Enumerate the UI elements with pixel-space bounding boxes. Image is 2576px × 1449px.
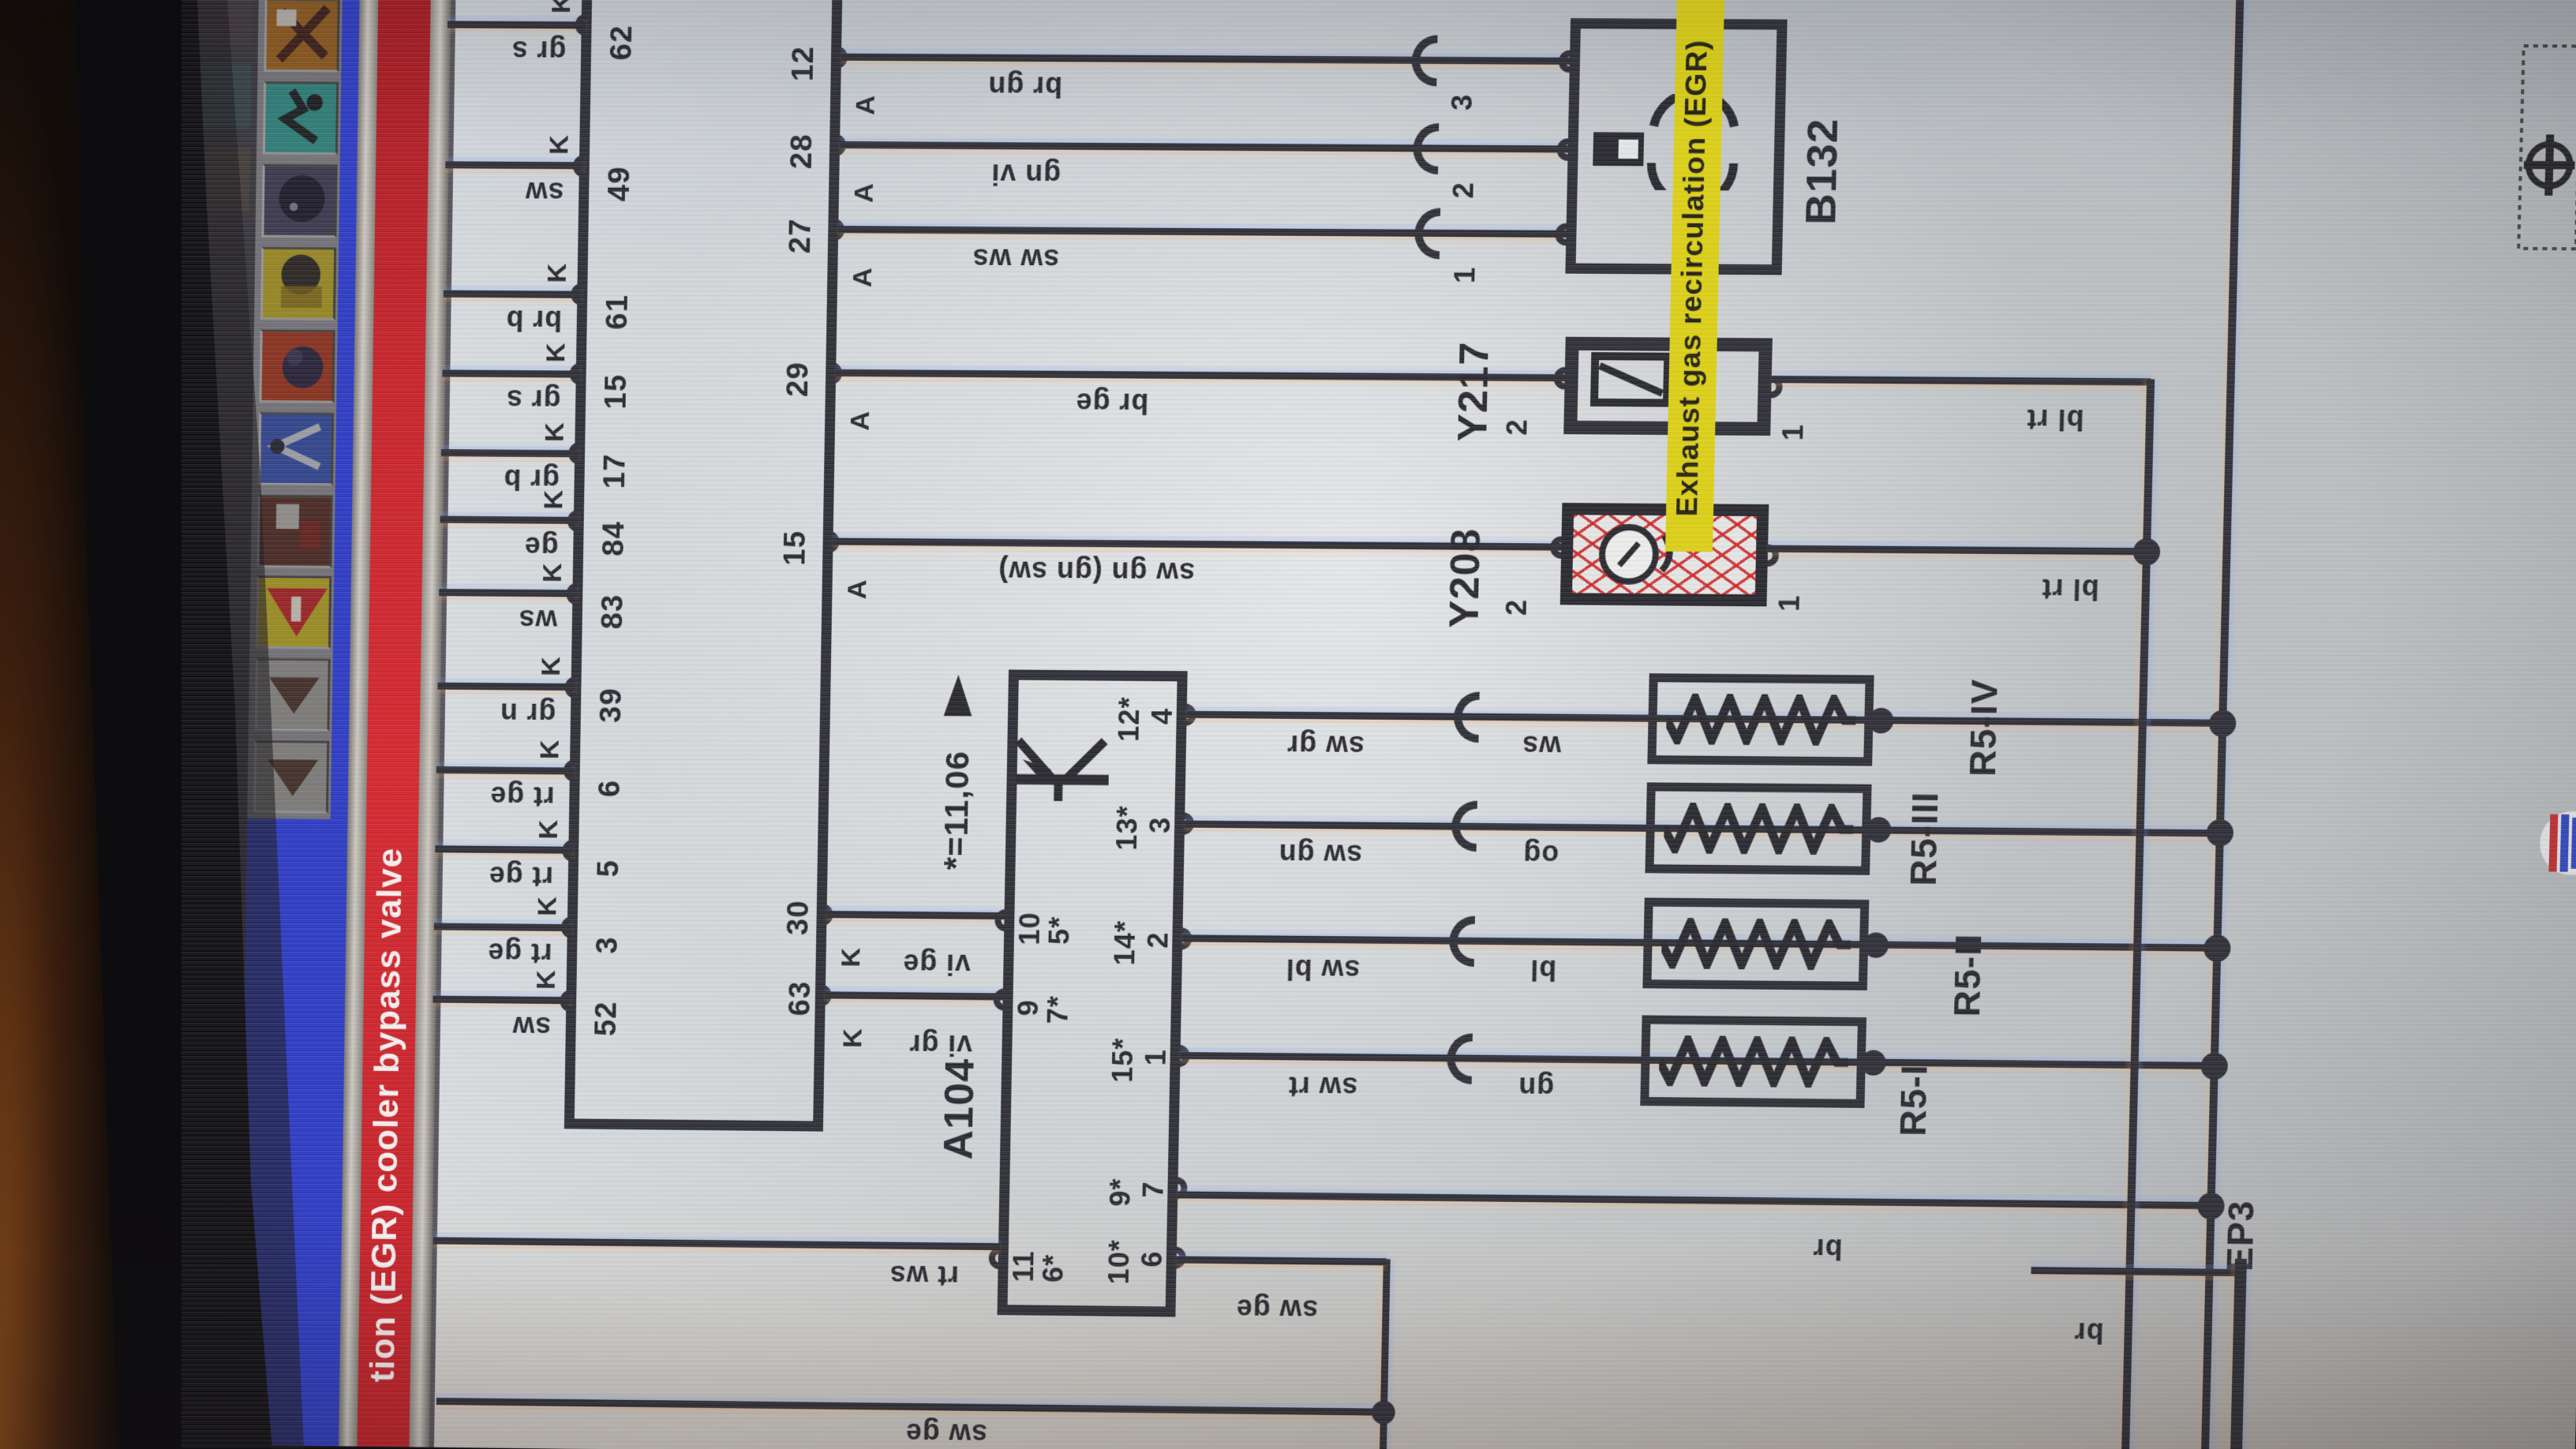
wire label og (1522, 840, 1559, 870)
A104 pin 10 bump (994, 909, 1005, 931)
pin 27 number (785, 218, 817, 253)
wire stub pin 6 (436, 766, 575, 775)
connector arc wire 1 (1414, 208, 1440, 259)
toolbar icon 6 (259, 329, 335, 402)
wire A104 to R5-I (1180, 1052, 2214, 1069)
A104 internal note *=11,06 (938, 751, 975, 871)
pin 15 bump (828, 530, 839, 552)
pin 29 number (783, 361, 814, 397)
partial wire label br (2073, 1317, 2104, 1347)
A104 pin internal 14* (1110, 920, 1140, 966)
toolbar icon 2 (255, 658, 331, 732)
wire pin63 to A104 (826, 991, 1003, 1000)
pin 84 K label (541, 489, 569, 510)
A104 pin internal 9* (1106, 1178, 1136, 1206)
Y217 designator (1451, 341, 1496, 441)
toolbar dim film (247, 0, 344, 819)
wire label bl rt (Y208) (2041, 574, 2099, 605)
resistor R5-III designator (1904, 792, 1945, 886)
A104 pin 3 number (1145, 817, 1175, 833)
pin 29 bump (831, 362, 842, 384)
A104 pin 3 bump (1183, 813, 1194, 835)
pin 52 K label (533, 969, 561, 990)
pin 39 number (597, 687, 628, 723)
B132 pin bump (1555, 223, 1567, 245)
resistor R5-IV zigzag (1666, 694, 1856, 747)
pin 83 K label (539, 562, 567, 582)
pin 63 bump (821, 984, 832, 1006)
toolbar left blue panel (238, 818, 347, 1446)
red title bar text (365, 848, 409, 1383)
wire label br ge (1075, 388, 1148, 418)
connector A label (pin 27) (849, 267, 878, 287)
partial box edge (2230, 1259, 2247, 1449)
highlight band text (1672, 39, 1713, 517)
Y217 pin2 label (1502, 418, 1532, 436)
wire colour ge (pin 84) (524, 532, 559, 562)
wire colour rt ge (pin 6) (489, 781, 555, 812)
pin 52 number (591, 1001, 623, 1036)
Y217 pin1 bump (1771, 376, 1783, 398)
pin 5 K label (535, 819, 563, 840)
pin 83 number (597, 594, 629, 630)
pin 3 bump (561, 916, 572, 938)
arc pin number 2 (1448, 182, 1478, 199)
Y217 solenoid symbol (1589, 351, 1672, 408)
arc pin number 3 (1447, 94, 1477, 111)
bl rt bus line (2121, 379, 2155, 1449)
connector A label (pin 29) (847, 410, 875, 431)
wire label gn (1518, 1072, 1555, 1102)
pin 28 number (787, 133, 818, 169)
A104 pin 7 bump (1176, 1177, 1187, 1199)
pin 61 K label (544, 263, 572, 283)
pin 5 number (593, 859, 625, 878)
pin 39 K label (537, 656, 566, 676)
resistor R5-I zigzag (1659, 1035, 1849, 1088)
wire stub pin 83 (439, 589, 577, 597)
A104 pin internal 6* (1039, 1254, 1069, 1282)
wire pin15 to Y208 pin2 (833, 538, 1563, 551)
pin 84 number (599, 521, 631, 556)
junction dot sw ge (1372, 1401, 1395, 1425)
A104 pin 7 number (1139, 1181, 1169, 1197)
A104 pin 10 number (1015, 912, 1045, 945)
wire label sw ws (972, 244, 1059, 275)
A104 designator (938, 1058, 982, 1160)
wire label vi ge (902, 949, 971, 979)
wire label bl rt (Y217) (2026, 404, 2084, 435)
Y208 designator (1443, 528, 1488, 628)
resistor R5-I box (1640, 1015, 1866, 1107)
arc pin number 1 (1450, 267, 1480, 284)
outer toolbar icon 3 (197, 0, 253, 44)
toolbar icon 4 (257, 495, 333, 568)
EP3 junction dot at 799 (2206, 819, 2233, 847)
A104 pin 4 number (1148, 708, 1178, 724)
wire colour gr s (pin 62) (511, 36, 567, 66)
pin 49 number (605, 166, 636, 201)
A104 pin internal 12* (1114, 696, 1145, 742)
highlight band EGR label (1665, 0, 1725, 552)
wire label br gn (987, 71, 1062, 102)
wire stub pin 5 (435, 845, 573, 854)
pin 62 bump (575, 13, 586, 36)
pin 49 K label (545, 134, 574, 155)
connector A label (pin 28) (851, 182, 879, 203)
wire colour ws (pin 83) (518, 605, 557, 635)
wire stub pin 3 (434, 923, 572, 931)
wire label sw ge pin6 (1236, 1294, 1319, 1325)
wire pin29 to Y217 pin2 (836, 369, 1567, 382)
Y217 pin1 label (1778, 424, 1808, 441)
wire colour rt ge (pin 3) (487, 938, 552, 968)
EP3 designator (2221, 1200, 2261, 1271)
wire stub pin 84 (440, 516, 578, 524)
B132 sensor symbol square (1593, 132, 1644, 166)
A104 pin internal 15* (1108, 1037, 1139, 1083)
A104 pin 9 number (1013, 999, 1043, 1016)
wire sw ge bottom segment (1380, 1259, 1391, 1449)
pin 15 bump (570, 362, 581, 384)
A104 pin 11 bump (989, 1247, 1000, 1269)
pin 17 number (600, 453, 631, 489)
window border bevel (339, 0, 379, 1447)
pin 62 number (607, 24, 638, 60)
blue title strip (321, 0, 360, 1446)
pin 63 number (785, 981, 817, 1017)
page edge line (429, 0, 456, 1447)
outer toolbar icon 2 (196, 64, 251, 128)
pin 49 bump (573, 155, 584, 177)
outer toolbar icon 1 (195, 148, 250, 212)
pin 61 bump (571, 283, 582, 305)
wire A104 pin11 rt ws (433, 1237, 1000, 1250)
resistor R5-IV output dot (1868, 708, 1894, 734)
resistor R5-II zigzag (1661, 918, 1851, 971)
Y208 pin1 bump (1768, 545, 1780, 567)
resistor R5-IV designator (1964, 679, 2004, 777)
resistor R5-II box (1642, 897, 1869, 990)
toolbar icon 10 (264, 0, 339, 72)
lower bevel (409, 0, 451, 1447)
wire colour sw (pin 52) (511, 1012, 551, 1042)
connector arc R5-III wire (1451, 800, 1477, 852)
connector arc R5-II wire (1449, 915, 1475, 967)
A104 pin internal 13* (1112, 805, 1143, 851)
EP3 junction dot at 330 (2197, 1193, 2225, 1220)
wire label br (1812, 1234, 1843, 1264)
pin 3 number (593, 936, 624, 954)
toolbar icon 8 (261, 164, 337, 238)
pin 84 bump (567, 510, 578, 532)
resistor R5-III box (1645, 782, 1871, 874)
pin 83 bump (566, 582, 577, 605)
wire pin28 to B132 pin2 (840, 141, 1568, 153)
A104 pin 6 bump (1175, 1247, 1186, 1269)
resistor R5-III zigzag (1664, 803, 1854, 856)
wire pin30 to A104 (826, 911, 1004, 919)
resistor R5-II output dot (1863, 932, 1889, 958)
valve Y208 box (highlighted) (1560, 503, 1769, 606)
A104 pin 9 bump (993, 988, 1004, 1010)
Y208 pin1 label (1774, 594, 1804, 612)
wire Y208 pin1 bl rt (1768, 545, 2147, 556)
wire colour sw (pin 49) (525, 177, 564, 207)
toolbar icon 3 (256, 575, 331, 649)
Y208 valve symbol (1592, 515, 1688, 595)
wire A104 to R5-II (1182, 934, 2217, 951)
wire pin12 to B132 pin3 (841, 54, 1570, 65)
status icon crosshair (2515, 43, 2576, 252)
B132 designator (1799, 118, 1846, 225)
pin 62 K label (548, 0, 576, 13)
wire Y217 pin1 bl rt (1772, 376, 2151, 385)
connector A label (pin 12) (852, 95, 881, 115)
pin 6 bump (563, 759, 575, 781)
wire label sw bl (1285, 954, 1360, 985)
EP3 junction dot at 506 (2200, 1053, 2228, 1080)
toolbar icon 9 (263, 81, 339, 155)
partial wire bottom left (2031, 1267, 2239, 1276)
pin 30 K label (837, 947, 866, 968)
wire stub pin 39 (437, 683, 575, 691)
wire label sw rt (1288, 1072, 1358, 1103)
wire label vi gr (908, 1030, 972, 1061)
resistor R5-III output dot (1866, 817, 1892, 843)
pin 15 number (601, 374, 633, 410)
amplifier box A104 (998, 669, 1188, 1316)
wire A104 pin6 sw ge (1177, 1256, 1387, 1266)
A104 pin internal 10* (1104, 1239, 1135, 1285)
resistor R5-II designator (1948, 934, 1988, 1017)
B132 pin bump (1556, 138, 1568, 160)
EP3 junction dot at 654 (2203, 934, 2231, 962)
wire colour rt ge (pin 5) (489, 861, 554, 892)
pin 5 bump (562, 840, 573, 862)
wire label sw ge left (905, 1418, 988, 1449)
A104 pin 6 number (1137, 1251, 1167, 1267)
A104 pin 2 number (1143, 931, 1173, 948)
pin 39 bump (564, 676, 575, 698)
A104 pin internal 7* (1043, 995, 1073, 1024)
pin 63 K label (839, 1028, 867, 1048)
A104 pin 11 number (1009, 1250, 1039, 1282)
resistor R5-IV box (1647, 673, 1874, 766)
resistor R5-I output dot (1860, 1050, 1886, 1076)
ECU control unit box (564, 0, 843, 1132)
Y217 pin2 bump (1553, 367, 1565, 389)
wire A104 to R5-III (1185, 821, 2220, 837)
pin 30 bump (822, 904, 833, 926)
A104 pin 4 bump (1185, 704, 1196, 726)
valve Y217 box (1563, 337, 1773, 436)
wire colour gr n (pin 39) (500, 698, 556, 729)
wire label sw gr (1286, 730, 1365, 761)
pin 52 bump (560, 990, 571, 1012)
A104 note arrow (938, 670, 979, 718)
Y208 pin2 label (1502, 599, 1532, 616)
pin 15 number (781, 530, 812, 566)
pin 3 K label (534, 896, 563, 916)
wire stub pin 62 (447, 21, 586, 28)
wire A104 to R5-IV (1187, 711, 2223, 727)
B132 sensor symbol circle (1645, 94, 1747, 191)
EP3 junction dot at 936 (2209, 710, 2237, 737)
wire label sw gn (1278, 839, 1362, 870)
connector arc wire 2 (1413, 123, 1439, 174)
A104 pin 1 number (1141, 1049, 1171, 1065)
sensor B132 box (1565, 18, 1787, 275)
junction dot bl rt (2133, 538, 2161, 566)
resistor R5-I designator (1894, 1064, 1934, 1136)
pin 12 bump (837, 47, 848, 69)
wire label gn vi (990, 159, 1061, 190)
pin 30 number (784, 900, 815, 935)
pin 6 K label (537, 739, 565, 759)
connector A label (pin 15) (844, 578, 872, 599)
pin 61 number (602, 294, 634, 330)
wire pin27 to B132 pin1 (838, 226, 1566, 238)
pin 12 number (788, 46, 820, 81)
screen top edge dark gap (0, 0, 189, 1444)
wire label ws (1522, 731, 1562, 762)
wire label rt ws (889, 1260, 959, 1291)
connector arc wire 3 (1411, 35, 1437, 86)
transistor symbol in A104 (998, 718, 1125, 830)
wire label bl (1529, 955, 1557, 985)
status icon logo (2531, 803, 2576, 883)
toolbar icon 1 (253, 740, 329, 814)
pin 17 K label (541, 421, 570, 442)
pin 6 number (595, 780, 627, 798)
wire stub pin 61 (444, 290, 582, 298)
pin 17 bump (568, 442, 579, 464)
outer toolbar row (shadowed) (169, 0, 263, 1445)
B132 pin bump (1559, 51, 1571, 73)
wire colour gr s (pin 15) (506, 384, 561, 415)
A104 pin 1 bump (1178, 1045, 1189, 1067)
wire sw ge left (436, 1398, 1383, 1416)
connector arc R5-I wire (1447, 1033, 1473, 1084)
toolbar icon 7 (260, 247, 336, 320)
wire stub pin 15 (442, 369, 580, 377)
toolbar icon 5 (258, 412, 334, 485)
wire A104 pin7 br (1178, 1191, 2211, 1209)
A104 pin internal 5* (1044, 916, 1074, 945)
toolbar background (247, 0, 344, 819)
A104 pin 2 bump (1181, 927, 1192, 949)
wire stub pin 17 (441, 449, 579, 457)
wire stub pin 52 (433, 996, 571, 1005)
ground rail EP3 (2201, 0, 2245, 1449)
wire stub pin 49 (445, 161, 584, 169)
wire colour br b (pin 61) (505, 305, 562, 336)
pin 28 bump (835, 134, 846, 156)
Y208 pin2 bump (1550, 536, 1562, 558)
pin 15 K label (542, 342, 571, 362)
pin 27 bump (833, 219, 844, 241)
connector arc R5-IV wire (1454, 691, 1480, 743)
wire label sw gn (gn sw) (998, 556, 1195, 588)
red title bar (358, 0, 432, 1447)
wire colour gr b (pin 17) (503, 464, 560, 495)
